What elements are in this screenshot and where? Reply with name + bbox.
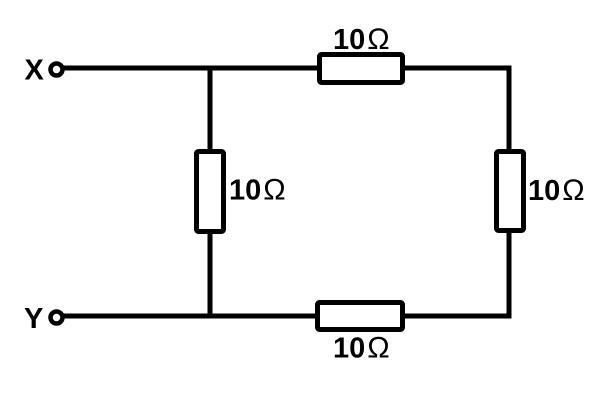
- wire R4 to node B: [210, 314, 319, 319]
- svg-text:10Ω: 10Ω: [333, 23, 390, 56]
- node A: [208, 66, 213, 71]
- resistor R1 (top, 10 ohm): [320, 55, 403, 83]
- svg-text:Y: Y: [24, 303, 43, 335]
- wire R1 to top-right corner: [403, 66, 512, 71]
- wire top-right corner down to R3: [507, 66, 512, 153]
- terminal X: [51, 64, 63, 76]
- wire R2 down to node B: [208, 231, 213, 316]
- terminal Y: [51, 312, 63, 324]
- wire node A to R1: [210, 66, 319, 71]
- node B: [208, 314, 213, 319]
- wire node B to terminal Y: [64, 314, 211, 319]
- resistor R2 (middle, 10 ohm): [197, 152, 224, 232]
- resistor R3 (right, 10 ohm): [497, 152, 524, 231]
- svg-text:10Ω: 10Ω: [528, 174, 585, 207]
- svg-text:10Ω: 10Ω: [229, 174, 286, 207]
- svg-text:X: X: [25, 55, 45, 87]
- wire X to node A: [64, 66, 211, 71]
- wire node A down to R2: [208, 68, 213, 152]
- wire R3 down to bottom-right corner: [507, 230, 512, 319]
- wire bottom-right corner to R4: [403, 314, 512, 319]
- svg-text:10Ω: 10Ω: [333, 332, 390, 365]
- resistor R4 (bottom, 10 ohm): [318, 303, 403, 330]
